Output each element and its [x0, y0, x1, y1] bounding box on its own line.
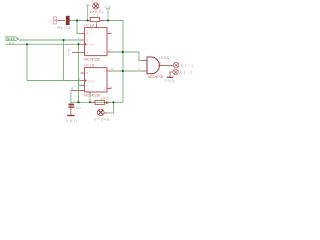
svg-text:X1-1: X1-1 [181, 64, 194, 68]
svg-text:MC14013B: MC14013B [84, 57, 101, 61]
svg-text:IC1B: IC1B [84, 62, 95, 67]
svg-text:1: 1 [138, 56, 140, 60]
svg-text:C4: C4 [65, 26, 71, 30]
svg-text:X1-2: X1-2 [180, 71, 193, 75]
svg-text:2: 2 [104, 50, 106, 54]
svg-text:1: 1 [104, 32, 106, 36]
svg-text:9: 9 [87, 84, 89, 88]
svg-text:8: 8 [87, 71, 89, 75]
svg-text:5: 5 [87, 38, 89, 42]
svg-text:12: 12 [111, 67, 115, 71]
svg-text:13: 13 [104, 69, 107, 73]
svg-text:MC14013B: MC14013B [84, 94, 101, 98]
svg-text:4: 4 [87, 51, 89, 55]
svg-text:CLK: CLK [88, 43, 95, 47]
svg-text:R4: R4 [58, 26, 63, 30]
svg-text:11: 11 [78, 77, 81, 81]
svg-text:GND: GND [165, 79, 175, 83]
svg-text:CLK: CLK [88, 79, 95, 83]
svg-text:12: 12 [104, 87, 107, 91]
svg-text:MC14071B: MC14071B [148, 75, 164, 79]
svg-text:IC1A: IC1A [84, 22, 95, 27]
svg-text:2: 2 [138, 66, 140, 70]
svg-text:GND: GND [66, 119, 77, 123]
svg-text:13: 13 [109, 85, 113, 89]
svg-text:SP04B: SP04B [94, 118, 109, 122]
svg-text:3: 3 [160, 61, 162, 65]
svg-text:1k2: 1k2 [101, 96, 109, 100]
svg-text:IC2A: IC2A [159, 56, 169, 60]
svg-text:VDD: VDD [104, 4, 112, 9]
svg-text:10n: 10n [74, 106, 81, 110]
svg-text:S2: S2 [9, 41, 14, 45]
svg-text:S1: S1 [92, 0, 98, 4]
svg-text:1: 1 [68, 52, 70, 56]
